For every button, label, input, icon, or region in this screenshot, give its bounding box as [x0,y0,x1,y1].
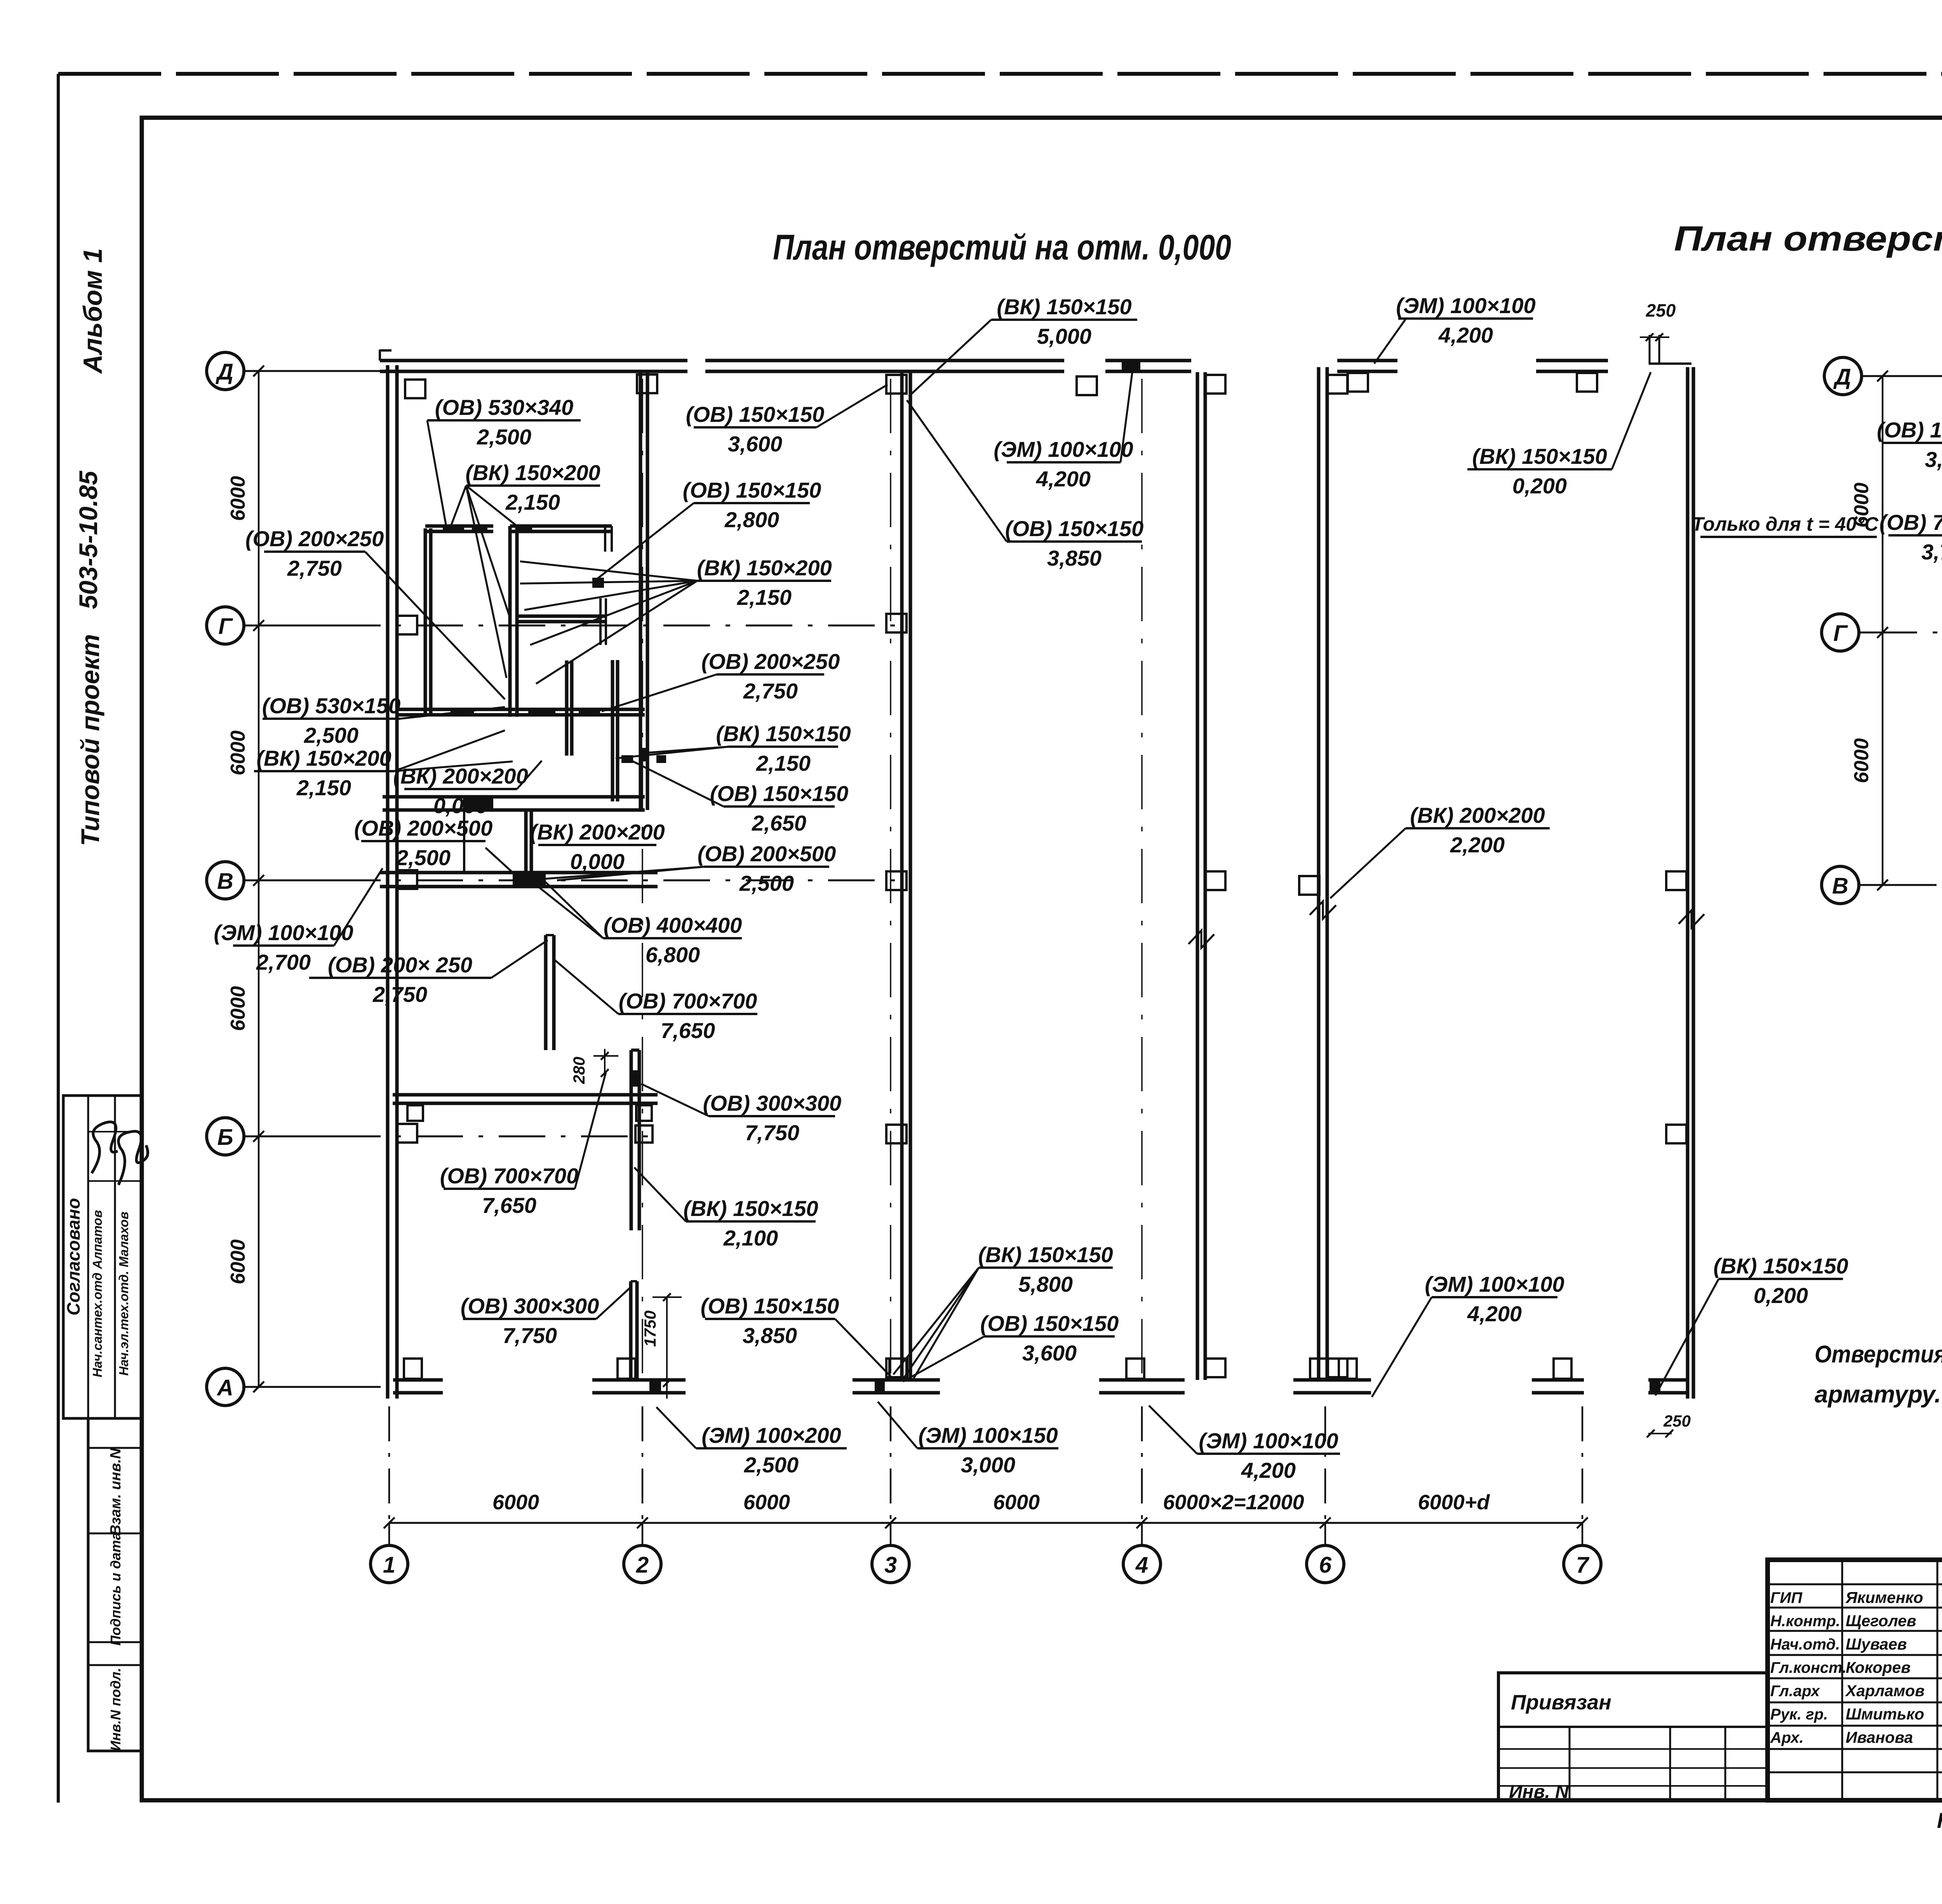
right plan left dimension line [1850,371,1888,890]
svg-text:2,500: 2,500 [396,845,451,870]
label OV400x400/6800 [528,879,742,967]
svg-text:(ОВ) 200×500: (ОВ) 200×500 [354,816,492,840]
label EM100x150/3000 [878,1402,1058,1477]
title right plan [1674,219,1942,258]
svg-text:7,750: 7,750 [745,1120,799,1145]
svg-text:280: 280 [570,1057,588,1084]
svg-text:3,600: 3,600 [728,432,782,456]
label OV150x150/2800 [595,478,821,581]
svg-text:3,000: 3,000 [961,1453,1015,1477]
svg-text:7,650: 7,650 [482,1193,536,1218]
label VK200x200/2200 [1330,803,1550,898]
svg-text:2,800: 2,800 [724,507,779,532]
svg-text:(ОВ) 200×250: (ОВ) 200×250 [701,649,840,674]
label OV150x150/3600 b [903,1311,1119,1381]
label VK150x200/2150 a [450,460,600,678]
label EM100x100/4200 c [1372,1272,1564,1397]
svg-text:(ЭМ) 100×150: (ЭМ) 100×150 [918,1423,1058,1448]
svg-text:6000: 6000 [227,1239,249,1284]
svg-text:7: 7 [1576,1552,1590,1578]
svg-text:Рук. гр.: Рук. гр. [1770,1706,1828,1723]
label VK150x200/2150 left [254,730,513,800]
right plan row axis circles [1822,357,1862,904]
svg-text:(ОВ) 150×150: (ОВ) 150×150 [710,781,848,806]
label VK150x150/2100 [634,1167,818,1250]
label OV1050x650 [1877,418,1942,472]
svg-text:2,750: 2,750 [372,982,427,1007]
left plan top wall row D segment 4 [1337,361,1397,371]
svg-text:(ОВ) 530×150: (ОВ) 530×150 [262,693,400,718]
dim 280 near stub [570,1049,618,1084]
svg-text:3,707: 3,707 [1921,540,1942,564]
svg-text:(ЭМ) 100×100: (ЭМ) 100×100 [1425,1272,1564,1296]
left plan top wall row D segment 2 [705,361,1064,371]
svg-text:Гл.арх: Гл.арх [1770,1683,1820,1700]
svg-text:(ОВ) 200×250: (ОВ) 200×250 [245,526,384,551]
label EM100x100/4200 b [1149,1406,1340,1482]
footer texts [1937,1808,1942,1833]
left plan top wall row D segment 1 [380,350,687,371]
svg-text:(ВК) 150×150: (ВК) 150×150 [978,1242,1113,1267]
svg-text:(ОВ) 300×300: (ОВ) 300×300 [703,1091,841,1115]
svg-text:3,490: 3,490 [1925,447,1942,472]
room block bottom wall y2068 [395,797,645,810]
svg-text:Арх.: Арх. [1770,1729,1804,1746]
svg-text:6000: 6000 [227,730,249,775]
svg-text:3,600: 3,600 [1022,1341,1077,1365]
svg-text:(ВК) 150×150: (ВК) 150×150 [1472,444,1607,469]
svg-text:Б: Б [217,1125,233,1150]
svg-text:3,850: 3,850 [1047,546,1102,570]
svg-text:3,850: 3,850 [743,1323,797,1348]
svg-text:6000×2=12000: 6000×2=12000 [1163,1491,1304,1514]
svg-text:(ЭМ) 100×100: (ЭМ) 100×100 [994,437,1133,462]
svg-text:2,100: 2,100 [723,1226,778,1250]
left plan corridor wall B [1197,372,1205,1380]
left plan bottom dimension line [384,1406,1588,1545]
svg-text:(ВК) 150×150: (ВК) 150×150 [716,721,851,746]
svg-text:(ОВ) 530×340: (ОВ) 530×340 [435,395,573,420]
svg-text:Копировал Марченка: Копировал Марченка [1937,1808,1942,1833]
svg-text:2,500: 2,500 [739,871,794,895]
svg-text:6000: 6000 [227,476,249,521]
svg-text:2,500: 2,500 [744,1453,799,1477]
svg-text:6: 6 [1319,1552,1332,1578]
svg-text:Альбом 1: Альбом 1 [78,248,108,374]
svg-text:Шуваев: Шуваев [1846,1635,1907,1653]
svg-text:7,650: 7,650 [661,1018,715,1043]
svg-text:(ОВ) 150×150: (ОВ) 150×150 [683,478,821,502]
svg-text:(ОВ) 700×700: (ОВ) 700×700 [440,1164,578,1188]
left plan bottom wall row A [393,1359,1688,1393]
svg-text:4,200: 4,200 [1241,1458,1296,1482]
label OV530x340/2500 [427,395,581,524]
partition E middle [517,578,606,645]
left plan stub wall x1415 [546,935,554,1050]
svg-text:4,200: 4,200 [1467,1301,1522,1326]
left plan corridor wall A [902,372,910,1380]
svg-text:4,200: 4,200 [1438,323,1493,347]
svg-text:0,000: 0,000 [433,793,488,818]
svg-text:(ЭМ) 100×200: (ЭМ) 100×200 [701,1423,841,1448]
label OV700x700/7650 a [554,960,757,1043]
left plan row axis circles [207,352,244,1406]
svg-text:2,750: 2,750 [743,679,798,703]
svg-text:4,200: 4,200 [1036,467,1091,491]
bottom wall door fills [649,1378,1660,1394]
svg-text:Н.контр.: Н.контр. [1770,1613,1840,1630]
privyazan table [1498,1673,1768,1802]
room block right wall x1658 [640,371,647,810]
svg-text:6000: 6000 [227,986,249,1031]
sidebar text 'Типовой проект' [76,634,104,846]
svg-text:(ОВ) 150×150: (ОВ) 150×150 [686,402,824,427]
label EM100x100/4200 top [1374,293,1536,364]
label OV200x500/2500 left [354,816,517,876]
title block signature table [1768,1560,1942,1800]
svg-text:250: 250 [1663,1412,1691,1430]
label VK150x150/2150 [616,721,851,775]
wall C break symbol [1310,901,1336,919]
svg-text:Инв. N: Инв. N [1509,1782,1569,1802]
left plan top wall row D segment 6 [1649,362,1691,365]
svg-text:План отверстий на отм. 3.30: План отверстий на отм. 3.300 [1674,219,1942,258]
svg-text:Нач.сантех.отд Алпатов: Нач.сантех.отд Алпатов [90,1210,104,1378]
svg-text:2,200: 2,200 [1450,833,1505,857]
label OV200x250/2750 c [602,649,840,711]
label OV300x300/7750 a [641,1084,841,1145]
title left plan [773,228,1231,267]
partition vertical x1583 [613,660,618,801]
left plan left wall axis 1 [388,365,397,1399]
svg-text:2,500: 2,500 [477,425,531,449]
left plan wall y2060 [383,797,464,873]
svg-text:Привязан: Привязан [1511,1691,1611,1714]
svg-text:Отверстия в панелях сверли: Отверстия в панелях сверлить по месту, н… [1815,1341,1942,1368]
svg-text:2,700: 2,700 [256,950,311,974]
svg-text:Взам. инв.N: Взам. инв.N [108,1448,124,1535]
svg-text:(ОВ) 700×700: (ОВ) 700×700 [619,989,757,1013]
svg-text:арматуру.: арматуру. [1815,1381,1941,1408]
svg-text:6000: 6000 [1850,738,1873,783]
label OV200x500/2500 right [545,841,836,895]
sidebar text '503-5-10.85' [74,470,103,609]
label OV150x150/3850 inside [907,400,1143,570]
svg-text:(ВК) 200×200: (ВК) 200×200 [393,764,528,788]
svg-text:250: 250 [1646,300,1676,321]
svg-text:2,150: 2,150 [756,751,811,775]
svg-text:6,800: 6,800 [646,942,700,967]
dim 250 bottom right [1647,1412,1691,1437]
label OV700x700/7650 b [440,1072,606,1218]
svg-text:Гл.конст.: Гл.конст. [1770,1659,1846,1676]
svg-text:(ЭМ) 100×100: (ЭМ) 100×100 [1199,1428,1338,1453]
svg-text:(ВК) 150×150: (ВК) 150×150 [997,294,1131,319]
left plan column blocks [397,373,1686,1377]
svg-text:6000: 6000 [993,1491,1040,1514]
svg-text:В: В [1832,873,1848,899]
sidebar lower boxes [88,1418,142,1751]
left plan top wall row D segment 5 [1536,361,1608,371]
svg-text:Д: Д [1833,364,1851,390]
svg-text:(ОВ) 150×150: (ОВ) 150×150 [701,1294,839,1318]
label EM100x200/2500 [656,1407,847,1477]
label VK150x150/0200 a [1467,372,1651,498]
svg-text:2,150: 2,150 [505,490,560,514]
svg-text:(ВК) 150×150: (ВК) 150×150 [683,1196,818,1221]
label VK200x200/0000 lower [530,820,665,874]
svg-text:(ВК) 150×200: (ВК) 150×200 [465,460,600,485]
label EM100x100/4200 inside [994,373,1133,491]
svg-text:0,200: 0,200 [1512,474,1567,498]
left plan left dimension line 6000x4 [227,366,264,1392]
svg-text:Только для t = 40°C: Только для t = 40°C [1692,513,1879,535]
svg-text:7,750: 7,750 [503,1323,557,1348]
svg-text:Иванова: Иванова [1846,1728,1913,1746]
room block connector x1361 [526,810,531,873]
svg-text:2,650: 2,650 [752,811,806,835]
svg-text:(ВК) 150×200: (ВК) 150×200 [256,746,391,770]
svg-text:(ОВ) 710×420: (ОВ) 710×420 [1879,510,1942,535]
svg-text:Д: Д [215,359,233,385]
partition box A top [425,524,493,533]
label VK150x150/5800 [893,1242,1113,1380]
left plan row axis lines [244,371,907,1387]
svg-text:(ВК) 150×200: (ВК) 150×200 [697,556,832,580]
svg-text:(ОВ) 200×500: (ОВ) 200×500 [698,841,836,866]
left plan row V wall [380,873,658,887]
partition box A left [425,528,431,715]
svg-text:2: 2 [636,1552,649,1578]
svg-text:1: 1 [383,1552,395,1578]
label Tolko dlya t40 [1692,513,1879,537]
label VK150x150/5000 [909,294,1137,396]
sidebar signatures [92,1122,148,1185]
label OV200x250/2750 left [245,526,505,699]
label EM100x100/2700 [214,868,383,974]
svg-text:Г: Г [1833,621,1848,646]
svg-text:5,000: 5,000 [1037,324,1091,348]
label VK150x200/2150 b [520,556,832,684]
svg-text:Инв.N подл.: Инв.N подл. [108,1668,124,1751]
svg-text:3: 3 [884,1552,897,1578]
svg-text:(ВК) 200×200: (ВК) 200×200 [1410,803,1545,827]
svg-text:Г: Г [218,614,233,639]
svg-text:(ЭМ) 100×100: (ЭМ) 100×100 [1396,293,1535,318]
dim 250 top right [1640,300,1676,364]
label OV150x150/2650 [625,758,848,835]
svg-text:Шмитько: Шмитько [1846,1705,1924,1723]
svg-text:5,800: 5,800 [1018,1272,1073,1296]
svg-text:0,200: 0,200 [1754,1283,1808,1308]
label OV530x150/2500 left [262,693,505,747]
left plan top wall row D segment 3 [1105,361,1191,371]
svg-text:Согласовано: Согласовано [63,1198,84,1315]
note text [1815,1341,1942,1408]
svg-text:(ОВ) 300×300: (ОВ) 300×300 [461,1294,599,1318]
svg-text:0,000: 0,000 [570,849,625,874]
svg-text:(ЭМ) 100×100: (ЭМ) 100×100 [214,920,353,945]
svg-text:Кокорев: Кокорев [1846,1658,1911,1676]
svg-text:Нач.отд.: Нач.отд. [1770,1636,1840,1653]
svg-text:(ОВ) 400×400: (ОВ) 400×400 [604,913,742,937]
svg-text:План отверстий на отм. 0,0: План отверстий на отм. 0,000 [773,228,1231,267]
label VK150x150/0200 b [1655,1254,1848,1395]
label OV710x420 [1879,510,1942,564]
svg-text:Нач.эл.тех.отд. Малахов: Нач.эл.тех.отд. Малахов [117,1212,131,1376]
svg-text:2,750: 2,750 [287,556,342,580]
left plan corridor wall C [1319,367,1327,1380]
right plan row axis lines [1859,376,1942,885]
label OV150x150/3600 [686,385,887,456]
left plan stub wall axis2 upper [631,1050,653,1230]
left plan stub wall axis2 lower [631,1281,637,1380]
svg-text:(ВК) 150×150: (ВК) 150×150 [1713,1254,1848,1278]
svg-text:Харламов: Харламов [1845,1682,1925,1700]
partition vertical x1465 [567,660,572,756]
partition mid horizontal y1833 [395,708,645,716]
svg-text:(ВК) 200×200: (ВК) 200×200 [530,820,665,844]
svg-text:(ОВ) 1050×650: (ОВ) 1050×650 [1877,418,1942,442]
svg-text:(ОВ) 150×150: (ОВ) 150×150 [980,1311,1119,1336]
svg-text:6000: 6000 [492,1491,539,1514]
label OV150x150/3850 b [701,1294,894,1380]
svg-text:1750: 1750 [641,1310,659,1347]
svg-text:503-5-10.85: 503-5-10.85 [74,470,103,609]
left plan right wall D [1679,367,1704,1399]
partition E top [510,524,612,552]
svg-text:2,150: 2,150 [737,585,792,610]
svg-text:Подпись и дата: Подпись и дата [108,1532,124,1646]
svg-text:6000+d: 6000+d [1418,1491,1490,1514]
dim 1750 near stub axis2 [641,1293,682,1399]
left plan interior axis dash-dot lines [642,379,1142,1375]
svg-text:2,500: 2,500 [304,723,358,747]
label OV300x300/7750 b [461,1288,630,1348]
svg-text:В: В [217,869,233,894]
svg-text:ГИП: ГИП [1770,1589,1803,1606]
svg-text:Якименко: Якименко [1845,1589,1923,1606]
svg-text:(ОВ) 150×150: (ОВ) 150×150 [1005,516,1143,541]
label VK200x200/0000 in-room [393,761,542,818]
svg-text:6000: 6000 [743,1491,790,1514]
svg-text:4: 4 [1135,1552,1148,1578]
partition E vertical [510,526,517,717]
svg-text:2,150: 2,150 [296,775,351,800]
partition small fills [621,755,666,763]
title block outline [1768,1560,1942,1800]
svg-text:А: А [216,1375,233,1401]
sidebar stamp box 'Согласовано' [63,1096,142,1418]
svg-text:Типовой проект: Типовой проект [76,634,104,846]
left plan column axis circles 1-7 [371,1545,1601,1583]
left plan wall y2820 [393,1095,658,1121]
sidebar text 'Альбом 1' [78,248,108,374]
label OV200x250/2750 d [309,940,548,1007]
svg-text:(ОВ) 200× 250: (ОВ) 200× 250 [328,953,472,977]
left plan top wall door fill [1122,359,1140,373]
svg-text:Щеголев: Щеголев [1846,1612,1916,1630]
wall B break symbol [1189,930,1214,948]
